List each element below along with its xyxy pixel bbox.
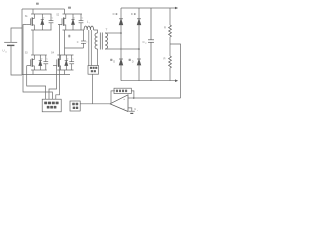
setpoint box text line1	[72, 103, 78, 105]
svg-text:D: D	[113, 12, 115, 16]
wire gate drive S4	[49, 66, 57, 100]
wire Cb to node B vertical	[65, 47, 84, 49]
node line top of cell S2	[63, 13, 83, 15]
feedback box text	[116, 90, 127, 93]
wire output top rail	[121, 7, 177, 9]
wire R1 to R2 (tap)	[169, 37, 171, 56]
wire sense tap down	[170, 44, 181, 98]
capacitor of cell S4	[69, 55, 74, 70]
drive box text line2	[47, 106, 57, 109]
wire secondary top to rectifier	[105, 32, 121, 34]
wire sense line to op-amp	[133, 97, 180, 99]
transistor S1	[27, 14, 35, 30]
junction secondary top	[120, 32, 122, 34]
diode of cell S3	[39, 55, 42, 70]
wire stub S3 to bottom rail	[32, 70, 34, 75]
capacitor of cell S3	[43, 55, 48, 70]
wire op-amp output to control	[80, 103, 110, 105]
wire output bottom rail	[121, 80, 177, 82]
wire control box stub right	[90, 30, 92, 66]
wire control box stub left	[88, 30, 90, 66]
junction secondary bottom	[138, 48, 140, 50]
transformer T secondary winding	[105, 33, 108, 49]
node line top of cell S4	[57, 54, 73, 56]
wire node B extension	[82, 29, 84, 31]
wire into Lr	[83, 29, 86, 31]
svg-text:D: D	[113, 60, 115, 64]
capacitor Cb	[81, 30, 86, 48]
junction feedback/inverting input	[133, 97, 135, 99]
output terminal + arrow	[175, 7, 178, 10]
diode of cell S4	[65, 55, 68, 70]
svg-text:R: R	[164, 26, 166, 30]
PWM controller box	[88, 66, 99, 75]
diode D1 (rectifier)	[119, 8, 123, 33]
drive circuit box	[42, 99, 61, 112]
label speck above S2	[68, 7, 71, 9]
svg-text:D: D	[132, 60, 134, 64]
drive box text line1	[44, 102, 58, 105]
setpoint box text line2	[73, 107, 79, 109]
node line bottom of cell S1	[31, 29, 52, 31]
feedback network box	[114, 88, 131, 93]
node label speck	[68, 35, 70, 38]
wire Lr to transformer primary	[94, 30, 98, 33]
label speck subscript D1	[116, 13, 118, 15]
transistor S4	[53, 55, 61, 70]
node line top of cell S3	[31, 54, 47, 56]
wire top input rail	[22, 8, 65, 10]
wire battery bottom lead	[11, 45, 22, 75]
diode of cell S2	[71, 14, 74, 30]
wire stub rail to S2	[64, 9, 66, 14]
label speck subscript D2	[134, 13, 136, 15]
op-amp U1	[110, 95, 128, 112]
wire node A vertical (left leg midpoint)	[32, 30, 34, 55]
resistor R1	[169, 25, 172, 37]
output terminal - arrow	[175, 79, 178, 82]
svg-text:C: C	[77, 41, 79, 44]
svg-text:in: in	[5, 52, 7, 54]
wire primary bottom lead to control box	[97, 49, 99, 66]
wire secondary bottom to rectifier	[105, 48, 139, 50]
svg-text:D: D	[131, 12, 133, 16]
wire bottom input rail	[22, 74, 70, 76]
wire to reference	[128, 108, 132, 111]
transistor S2	[58, 14, 66, 30]
setpoint box	[70, 101, 80, 111]
wire inverting input	[128, 97, 134, 99]
wire battery top lead	[11, 28, 22, 42]
diode of cell S1	[41, 14, 44, 30]
resistor R2	[169, 56, 172, 68]
inductor Lr	[84, 26, 94, 30]
node line bottom of cell S2	[63, 29, 83, 31]
svg-text:T: T	[106, 28, 108, 32]
wire gate drive S3	[27, 66, 46, 100]
node line bottom of cell S3	[31, 69, 47, 71]
wire gate drive S2	[56, 25, 60, 100]
transformer T core	[100, 33, 102, 50]
wire PWM box to op-amp output line	[92, 74, 94, 104]
diode D3 (rectifier)	[119, 33, 123, 81]
transformer T primary winding	[95, 33, 98, 49]
transistor S3	[27, 55, 35, 70]
battery Uin	[4, 42, 17, 45]
wire gate drive S1	[23, 25, 52, 100]
label speck above D3	[110, 59, 112, 61]
wire top rail to R1	[169, 8, 171, 25]
wire R2 to bottom rail	[169, 68, 171, 81]
node line top of cell S1	[31, 13, 52, 15]
svg-text:U: U	[2, 48, 4, 52]
wire feedback left	[111, 91, 115, 104]
wire stub S4 to bottom rail	[64, 70, 66, 75]
PWM box text line2	[91, 70, 96, 72]
wire left input rail	[21, 9, 23, 75]
wire stub rail to S1	[32, 9, 34, 14]
svg-text:b: b	[86, 42, 87, 44]
svg-text:R: R	[164, 57, 166, 61]
node line bottom of cell S4	[57, 69, 73, 71]
capacitor C2	[148, 8, 154, 81]
PWM box text line1	[90, 67, 97, 69]
wire node B vertical (right leg midpoint)	[64, 30, 66, 55]
capacitor of cell S1	[49, 14, 54, 30]
diode D4 (rectifier)	[137, 49, 141, 81]
label speck above D4	[129, 59, 131, 61]
wire feedback right	[131, 91, 134, 98]
capacitor of cell S2	[79, 14, 84, 30]
reference source Ur	[129, 111, 135, 113]
diode D2 (rectifier)	[137, 8, 141, 49]
label speck above S1	[36, 3, 39, 5]
